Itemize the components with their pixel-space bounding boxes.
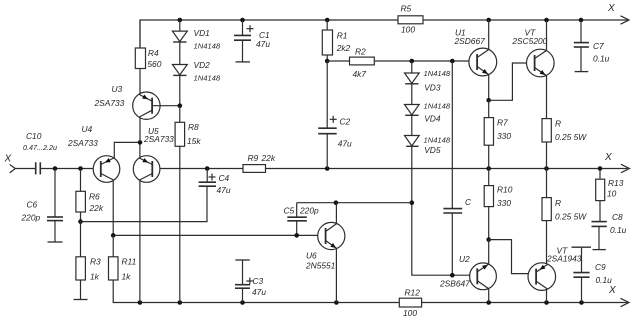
wire VT 2SA1943 collector to negative rail (546, 289, 548, 302)
svg-text:15k: 15k (187, 136, 201, 146)
resistor R5 (398, 4, 423, 35)
diode VD4 (405, 102, 451, 124)
resistor R4 (135, 20, 161, 94)
capacitor C7 (574, 20, 610, 72)
svg-text:X: X (604, 152, 612, 163)
resistor R10 (484, 169, 513, 240)
capacitor C across bias chain (443, 61, 472, 275)
node diff pair emitters junction (138, 140, 143, 145)
svg-text:R6: R6 (89, 192, 100, 202)
arrow X bottom right (608, 285, 629, 307)
node output line C2 tap (325, 166, 330, 171)
node output line R13 tap (598, 166, 603, 171)
wire U4 collector (112, 180, 114, 236)
resistor R8 (175, 106, 201, 303)
transistor U2 2SB647 driver (439, 254, 496, 290)
capacitor C5 miller (284, 203, 319, 236)
capacitor C1 (234, 20, 270, 62)
wire R2 to U1 base line (327, 60, 477, 62)
node R6 tap (78, 166, 83, 171)
ground stub C7 (575, 71, 589, 73)
svg-text:47u: 47u (252, 287, 266, 297)
wire U2 to negative rail (488, 289, 490, 303)
svg-text:22k: 22k (89, 203, 104, 213)
svg-text:X: X (4, 154, 12, 165)
node bottom rail R8 tap (178, 300, 183, 305)
svg-text:1N4148: 1N4148 (424, 69, 451, 78)
svg-text:VD5: VD5 (424, 145, 441, 155)
svg-text:R4: R4 (148, 48, 159, 58)
node top rail VT collector (544, 18, 549, 23)
wire U5 emitter (139, 142, 141, 158)
svg-text:0.25 5W: 0.25 5W (555, 132, 587, 142)
svg-text:VD3: VD3 (424, 83, 441, 93)
capacitor C4 (199, 169, 231, 196)
svg-text:47u: 47u (338, 139, 352, 149)
svg-text:1N4148: 1N4148 (194, 41, 221, 50)
node VD chain U6 collector line junction (410, 200, 415, 205)
svg-text:R7: R7 (497, 118, 508, 128)
capacitor C8 (592, 212, 627, 250)
svg-text:R12: R12 (405, 288, 421, 298)
wire U6 collector (335, 203, 337, 224)
svg-text:C4: C4 (219, 173, 230, 183)
resistor R11 (109, 235, 137, 281)
node R10 U2 junction (486, 237, 491, 242)
svg-text:VD2: VD2 (194, 60, 211, 70)
arrow X mid right (604, 152, 630, 173)
node U3 base bias (178, 103, 183, 108)
transistor VT 2SA1943 output (528, 246, 582, 291)
wire VT emitter (546, 75, 548, 118)
svg-text:C: C (465, 197, 472, 207)
resistor R12 (399, 288, 421, 319)
wire R10 node to VT 2SA1943 base (489, 240, 536, 274)
capacitor C2 bootstrap (318, 61, 352, 169)
svg-text:C9: C9 (595, 262, 606, 272)
svg-text:2SD667: 2SD667 (454, 36, 486, 46)
svg-text:R5: R5 (401, 4, 412, 14)
svg-text:100: 100 (403, 308, 417, 318)
wire U3 base (152, 105, 180, 107)
wire U6 collector line (297, 202, 412, 204)
diode VD3 (405, 61, 451, 93)
wire U6 emitter to negative rail (335, 249, 337, 303)
wire R10 node to U2 collector (488, 240, 490, 265)
transistor U3 2SA733 current source (94, 84, 161, 120)
wire input line to U4 base (40, 168, 101, 170)
node top rail R1 tap (325, 18, 330, 23)
node U1 base line C tap (450, 59, 455, 64)
wire U6 base line from diff pair (113, 234, 325, 236)
diode VD2 (172, 60, 220, 82)
ground stub C6 (48, 241, 63, 243)
svg-text:22k: 22k (261, 153, 276, 163)
svg-text:C10: C10 (26, 131, 42, 141)
svg-text:2SA733: 2SA733 (67, 138, 98, 148)
transistor U1 2SD667 driver (454, 28, 497, 76)
diode VD5 (405, 136, 451, 156)
svg-text:2SA733: 2SA733 (94, 98, 125, 108)
svg-text:0.47...2.2u: 0.47...2.2u (23, 143, 57, 152)
svg-text:330: 330 (497, 198, 511, 208)
wire U5 collector to negative rail (139, 180, 141, 303)
svg-text:1N4148: 1N4148 (424, 136, 451, 145)
svg-text:10: 10 (607, 189, 617, 199)
transistor U5 2SA733 (133, 126, 174, 183)
svg-text:U3: U3 (112, 84, 123, 94)
svg-text:R10: R10 (497, 185, 513, 195)
resistor R9 (243, 153, 276, 172)
wire U3 collector (139, 118, 141, 143)
node top rail C7 tap (579, 18, 584, 23)
svg-text:560: 560 (147, 59, 161, 69)
node R6 R3 C4 junction (78, 219, 83, 224)
svg-text:47u: 47u (256, 39, 270, 49)
svg-text:C5: C5 (284, 206, 295, 216)
svg-text:C3: C3 (253, 276, 264, 286)
node top rail U1 collector (486, 18, 491, 23)
svg-text:U6: U6 (306, 251, 317, 261)
transistor U4 2SA733 (67, 124, 120, 183)
svg-text:VD4: VD4 (424, 114, 441, 124)
svg-text:R9: R9 (248, 153, 259, 163)
resistor R1 (322, 20, 350, 61)
node output line R7 R10 junction (486, 166, 491, 171)
transistor U6 2N5551 VAS (305, 222, 345, 270)
transistor VT 2SC5200 output (511, 28, 554, 77)
node U6 collector junction (334, 200, 339, 205)
wire U1 collector (488, 20, 490, 50)
node bottom rail C9 tap (579, 300, 584, 305)
wire feedback shunt line to C4 (81, 186, 208, 221)
svg-text:R8: R8 (188, 122, 199, 132)
svg-text:100: 100 (401, 25, 415, 35)
ground stub C9 (572, 246, 592, 248)
wire VD3 to VD4 (411, 84, 413, 105)
resistor R 0.25 5W upper (542, 119, 587, 169)
svg-text:R13: R13 (608, 178, 624, 188)
node input terminal X (4, 154, 16, 173)
wire VD4 to VD5 (411, 115, 413, 135)
svg-text:0.1u: 0.1u (596, 275, 613, 285)
wire VD5 down to U2 base line (412, 146, 478, 275)
node bottom rail VT collector (544, 300, 549, 305)
wire VT collector (546, 20, 548, 51)
diode VD1 (172, 20, 220, 50)
node bottom rail U6 emitter (334, 300, 339, 305)
node U2 base line C junction (450, 273, 455, 278)
svg-text:R11: R11 (122, 257, 137, 267)
svg-text:R1: R1 (337, 31, 348, 41)
svg-text:U2: U2 (459, 254, 470, 264)
node output line C4 tap (205, 166, 210, 171)
resistor R2 (350, 47, 375, 80)
svg-text:1N4148: 1N4148 (424, 102, 451, 111)
svg-text:330: 330 (497, 131, 511, 141)
svg-text:1k: 1k (122, 272, 132, 282)
resistor R 0.25 5W lower (542, 169, 587, 265)
svg-text:220p: 220p (299, 206, 319, 216)
node bottom rail C3 tap (240, 300, 245, 305)
svg-text:R: R (555, 198, 561, 208)
node C6 tap (53, 166, 58, 171)
wire VD1 to VD2 (179, 42, 181, 65)
capacitor C10 (23, 131, 57, 174)
node bottom rail U2 tap (486, 300, 491, 305)
ground stub R3 (74, 299, 88, 301)
wire top positive supply rail (140, 20, 628, 48)
svg-text:1k: 1k (90, 272, 100, 282)
svg-text:220p: 220p (21, 213, 41, 223)
svg-text:VD1: VD1 (194, 28, 210, 38)
wire VD2 to U3 base node (179, 75, 181, 105)
node output line emitter resistors junction (544, 166, 549, 171)
ground stub C8 (593, 249, 606, 251)
resistor R6 (76, 169, 104, 222)
svg-text:R2: R2 (355, 47, 366, 57)
node top rail VD1 tap (178, 18, 183, 23)
svg-text:2k2: 2k2 (336, 43, 351, 53)
node U1 base line VD3 tap (410, 59, 415, 64)
node bottom rail U5 collector (138, 300, 143, 305)
svg-text:0.1u: 0.1u (610, 225, 627, 235)
svg-text:0.25 5W: 0.25 5W (555, 212, 587, 222)
svg-text:2SA1943: 2SA1943 (546, 254, 582, 264)
svg-text:R: R (555, 119, 561, 129)
wire U1 emitter (488, 75, 490, 101)
svg-text:4k7: 4k7 (353, 69, 367, 79)
svg-text:2SA733: 2SA733 (143, 134, 174, 144)
node U4 collector R11 junction (111, 233, 116, 238)
svg-text:C6: C6 (27, 200, 38, 210)
capacitor C6 (21, 169, 64, 243)
node U1 emitter R7 junction (486, 98, 491, 103)
wire U1 emitter to VT base (489, 63, 535, 100)
wire mid output line (152, 168, 627, 170)
resistor R7 (484, 100, 511, 168)
svg-text:C8: C8 (612, 212, 623, 222)
arrow X top right (607, 3, 629, 24)
svg-text:R3: R3 (90, 257, 101, 267)
svg-text:2N5551: 2N5551 (305, 260, 335, 270)
svg-text:C7: C7 (593, 41, 604, 51)
wire U4 emitter (114, 142, 140, 158)
resistor R13 (596, 169, 624, 222)
node top rail C1 tap (240, 18, 245, 23)
wire bottom negative supply rail (113, 280, 627, 303)
resistor R3 (76, 222, 101, 300)
svg-text:X: X (607, 3, 615, 14)
node C5 U6 base junction (294, 233, 299, 238)
capacitor C3 (235, 260, 266, 303)
svg-text:0.1u: 0.1u (593, 54, 610, 64)
svg-text:47u: 47u (217, 185, 231, 195)
svg-text:U4: U4 (82, 124, 93, 134)
capacitor C9 (573, 247, 612, 302)
svg-text:X: X (608, 285, 616, 296)
svg-text:2SB647: 2SB647 (439, 279, 470, 289)
svg-text:1N4148: 1N4148 (194, 74, 221, 83)
svg-text:C2: C2 (340, 117, 351, 127)
ground stub C3 (235, 259, 250, 261)
wire input line (15, 168, 35, 170)
node R1 R2 C2 junction (325, 59, 330, 64)
svg-text:2SC5200: 2SC5200 (511, 36, 547, 46)
ground stub C1 (236, 61, 251, 63)
